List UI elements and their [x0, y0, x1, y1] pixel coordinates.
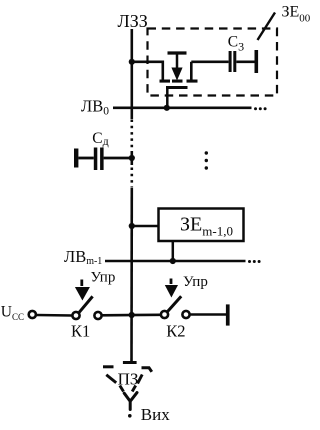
- wire bus to ЗЕm-1,0 box: [132, 225, 159, 228]
- wire Сд to bus: [104, 157, 132, 160]
- control arrow Упр K1 head: [75, 287, 90, 301]
- control arrow Упр K2 shaft: [170, 279, 173, 285]
- wire ЛЗЗ bus solid lower segment: [130, 188, 133, 361]
- wire ЛВm-1 bit line: [105, 260, 246, 263]
- wire ЛЗЗ bus solid top segment: [131, 29, 134, 119]
- control arrow Упр K1 shaft: [80, 280, 83, 287]
- ПЗ triangle lower-right dash: [132, 386, 136, 392]
- transistor VT1 gate bar: [166, 86, 188, 89]
- wire from bus to transistor left lead: [132, 62, 163, 80]
- svg-text:Упр: Упр: [91, 270, 116, 286]
- transistor VT1 channel segment left: [160, 80, 171, 83]
- slash over box corner: [258, 13, 276, 41]
- svg-text:UСС: UСС: [1, 304, 24, 323]
- capacitor Сд electrode bar: [74, 149, 78, 168]
- vertical ellipsis: [205, 151, 208, 154]
- terminal circle Ucc: [29, 311, 36, 318]
- junction dot Сд on bus: [129, 155, 135, 161]
- wire K2 to electrode: [190, 313, 227, 316]
- capacitor C3 plate 2: [233, 51, 236, 72]
- svg-text:ЛЗЗ: ЛЗЗ: [118, 11, 148, 31]
- junction dot box lead on ЛВm-1: [170, 258, 176, 264]
- svg-text:К2: К2: [166, 322, 185, 341]
- wire Сд electrode to plate: [78, 157, 93, 160]
- switch K1 lever: [79, 296, 92, 312]
- wire transistor to capacitor C3: [191, 60, 228, 63]
- svg-text:ЗЕ00: ЗЕ00: [282, 4, 311, 25]
- wire ЛЗЗ bus solid at Сд junction: [131, 152, 134, 165]
- wire box lead down: [172, 241, 175, 261]
- control arrow Упр K2 head: [165, 285, 178, 298]
- transistor VT1 channel segment right: [187, 80, 198, 83]
- storage element ЗЕm-1,0 box: [159, 209, 244, 242]
- switch K1 left contact circle: [72, 312, 79, 319]
- switch K1 right contact circle: [94, 312, 101, 319]
- transistor VT1 substrate bar: [168, 51, 187, 54]
- switch K2 lever: [168, 296, 181, 311]
- switch K2 left contact circle: [161, 311, 168, 318]
- output fork symbol: [124, 393, 137, 410]
- capacitor Сд plate 2: [100, 148, 104, 171]
- ПЗ triangle top-right dash: [142, 368, 152, 372]
- storage element ЗЕ00 dashed box: [148, 29, 278, 96]
- transistor VT1 right lead: [190, 62, 193, 80]
- output dot: [128, 414, 132, 418]
- switch K2 right contact circle: [182, 311, 189, 318]
- capacitor C3 plate 1: [229, 51, 232, 72]
- transistor VT1 channel segment middle: [172, 80, 183, 83]
- svg-text:Сд: Сд: [92, 130, 108, 148]
- capacitor C3 electrode bar: [255, 50, 259, 73]
- svg-text:К1: К1: [71, 322, 90, 341]
- wire ЛВ0 bit line: [113, 107, 252, 110]
- wire C3 to electrode: [236, 60, 254, 63]
- bus end T-bar: [123, 361, 137, 364]
- svg-text:С3: С3: [228, 34, 244, 54]
- svg-text:ЛВ0: ЛВ0: [81, 96, 109, 117]
- svg-text:ЛВm-1: ЛВm-1: [64, 247, 102, 267]
- ПЗ triangle right side dash: [138, 375, 143, 384]
- ellipsis after ЛВ0 line: [254, 107, 257, 110]
- transistor VT1 substrate lead: [176, 53, 179, 69]
- ПЗ triangle lower-left dash: [120, 386, 124, 392]
- wire K1 to K2: [102, 313, 161, 316]
- transistor VT1 substrate arrow: [171, 68, 182, 81]
- junction dot bus on switch wire: [129, 312, 135, 318]
- wire Ucc to K1: [37, 314, 73, 317]
- junction dot at ЛЗЗ / transistor wire: [129, 59, 135, 65]
- capacitor Сд plate 1: [94, 148, 98, 171]
- junction dot box wire on bus: [129, 223, 135, 229]
- svg-text:Упр: Упр: [183, 274, 208, 290]
- svg-text:Вих: Вих: [141, 405, 170, 424]
- transistor VT1 gate lead down: [166, 88, 169, 108]
- junction dot gate lead on ЛВ0: [164, 105, 170, 111]
- ellipsis after ЛВm-1 line: [248, 260, 251, 263]
- ПЗ triangle left side dash: [106, 375, 116, 383]
- wire ЛЗЗ bus dotted segment 2: [131, 168, 134, 188]
- sense amplifier ПЗ dashed triangle top-left dash: [103, 365, 114, 368]
- svg-text:ПЗ: ПЗ: [118, 370, 139, 389]
- electrode bar after K2: [226, 304, 230, 325]
- wire ЛЗЗ bus dotted segment 1: [131, 120, 134, 153]
